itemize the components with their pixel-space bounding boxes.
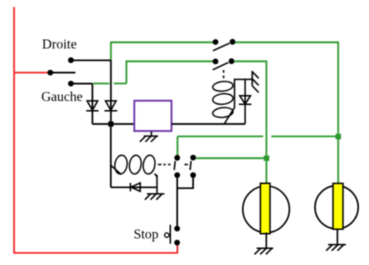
wire: junction row to module U1 (92, 123, 134, 125)
relay contact K1a (left pole) (174, 155, 180, 178)
wire: module U1 to flasher bottom rail (172, 123, 246, 125)
mechanical link: dashed coil L2 to contacts (158, 164, 188, 166)
module U1 (purple box) (134, 101, 171, 131)
diode D2 (104, 101, 117, 111)
relay contact K1b (right pole) (190, 155, 196, 178)
wire: relay coil left diagonal lead (111, 165, 121, 174)
diode D3 (flasher) with through wire (239, 79, 252, 124)
wire: relay coil right lead step (155, 174, 157, 177)
ground: relay (145, 194, 165, 200)
wire: vertical through diode D1 down to corner (91, 84, 93, 124)
coil L1 (flasher, vertical) (212, 80, 233, 118)
diode D4 (relay, points left) (130, 183, 140, 191)
wire: vertical through diode D2 down to junction (110, 60, 112, 124)
switch S2 (flasher upper contact) (213, 39, 236, 51)
wire: green relay contact to LP1 junction (196, 157, 264, 159)
wire: green drop to relay contact pole (177, 136, 179, 155)
wire: green Gauche wire segments (gap at crossing) (93, 83, 127, 85)
coil L2 (relay, horizontal) (114, 154, 157, 174)
wire: red supply bus (left vertical + bottom run to Stop switch) (14, 7, 177, 253)
wire: relay right vertical to ground (156, 175, 158, 194)
switch S4 Stop pushbutton (165, 225, 180, 246)
node: SW1 Gauche contact (68, 81, 74, 87)
svg-text:Droite: Droite (42, 37, 77, 52)
ground: lamp LP1 (255, 248, 274, 254)
svg-text:Gauche: Gauche (41, 89, 83, 104)
wire: red feed to selector common pole (14, 72, 50, 74)
mechanical link: dashed S3 to coil L1 (223, 70, 225, 78)
wire: green lamp feed crossing (left of gap) (178, 135, 264, 137)
diode D1 (86, 101, 98, 111)
ground: lamp LP2 (326, 245, 346, 251)
wire: relay diode row (111, 186, 157, 188)
wire: coil L1 frame right vertical + top link (235, 79, 253, 108)
switch SW1 selector lever (50, 72, 75, 74)
ground: under module U1 (140, 131, 158, 142)
node: junction square D2/relay feed (108, 121, 113, 126)
wire: green S2 to lamp LP2 (top run + right drop) (235, 42, 338, 183)
wire: right pole jog (177, 178, 193, 189)
lamp LP2 (315, 183, 358, 229)
lamp LP1 (243, 183, 290, 233)
ground: flasher internal (rotated, hatches right) (252, 71, 259, 93)
switch S3 (flasher lower contact) (213, 58, 235, 70)
node: SW1 common pole (47, 70, 53, 76)
wire: green Gauche riser to flasher switch S3 (126, 61, 213, 83)
node: green junction on lamp LP2 drop (336, 134, 342, 140)
wire: Droite contact to node B vertical (71, 59, 111, 61)
svg-text:Stop: Stop (134, 227, 159, 242)
wire: lamp LP2 to ground (336, 229, 338, 245)
wire: green Droite wire up-over to flasher switch S2 (111, 42, 214, 60)
wire: lamp LP1 to ground (265, 233, 267, 249)
node: SW1 Droite contact (68, 57, 74, 63)
wire: Gauche contact stub (71, 83, 93, 85)
wire: green lamp feed crossing (right of gap to node) (271, 135, 336, 137)
node: green junction on lamp LP1 drop (264, 156, 270, 162)
wire: contact poles join and run to Stop switch (176, 178, 178, 229)
wire: coil L1 bottom diagonal lead (224, 108, 234, 125)
wire: green S3 to lamp LP1 drop (234, 61, 266, 183)
wire: junction down to relay K1 (110, 124, 112, 187)
